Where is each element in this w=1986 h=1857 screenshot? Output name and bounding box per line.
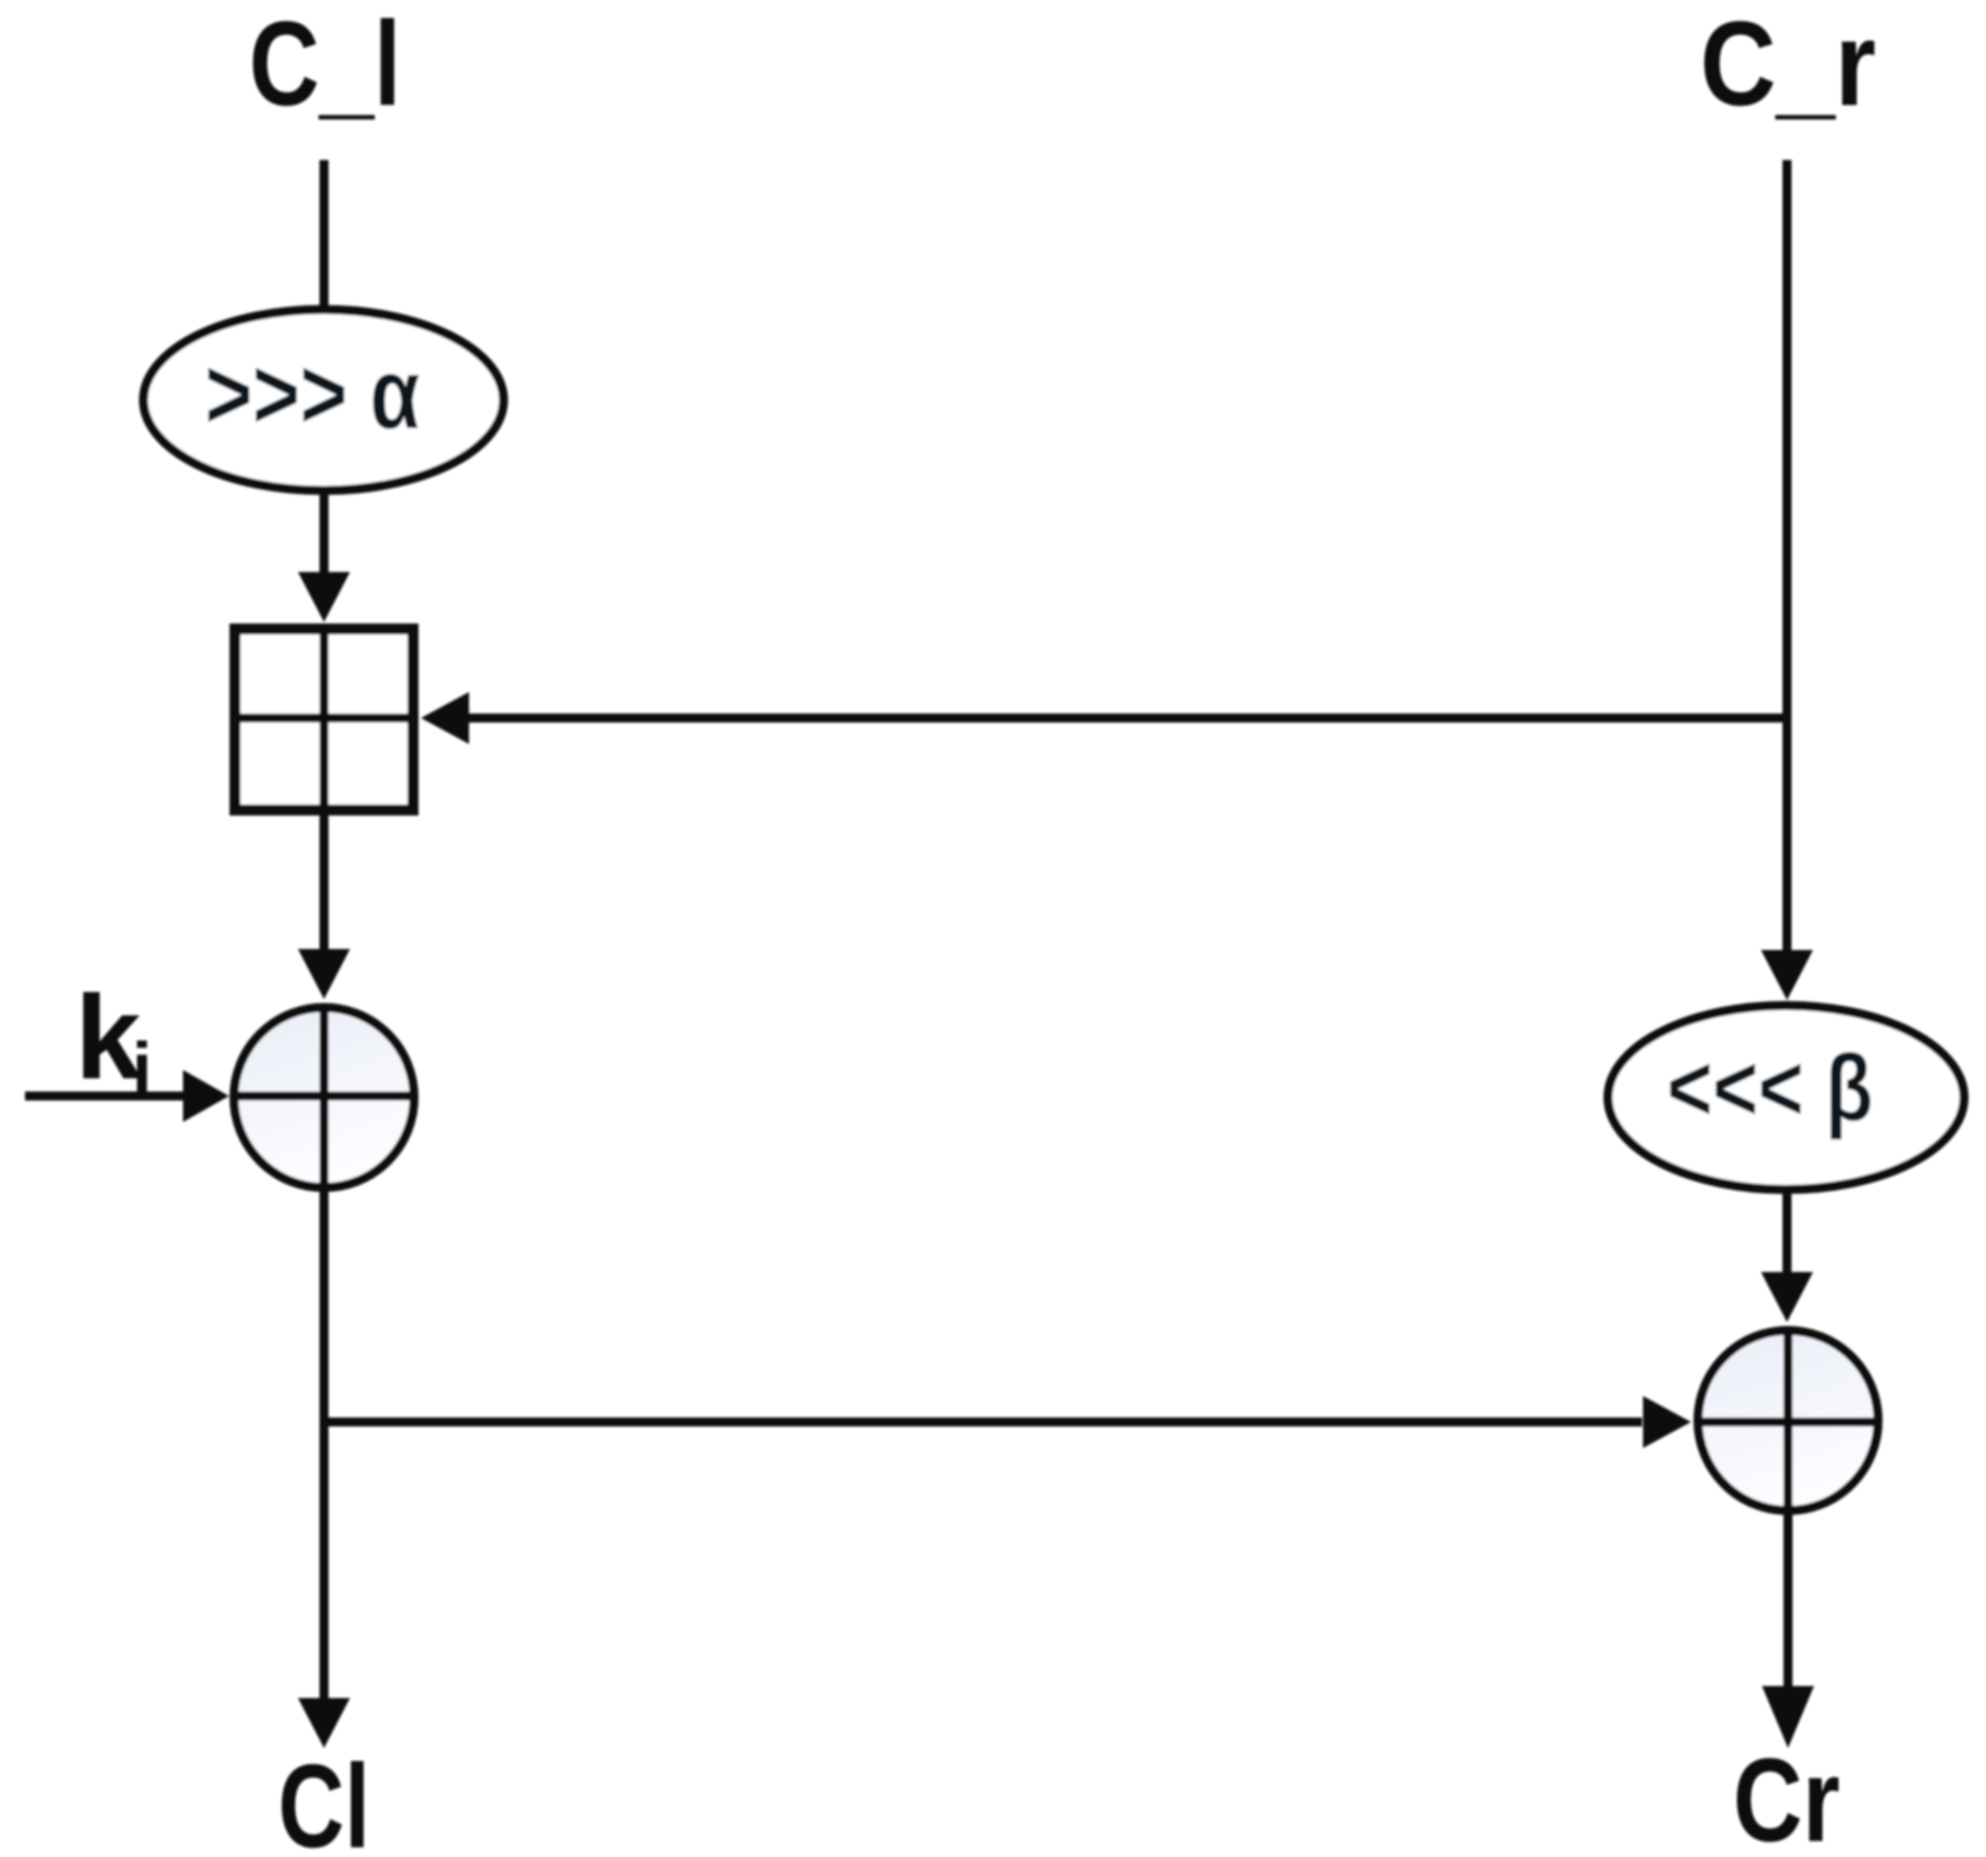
svg-text:C_r: C_r	[1700, 0, 1876, 131]
svg-text:Cl: Cl	[278, 1740, 370, 1857]
svg-text:i: i	[132, 1029, 152, 1109]
svg-text:>>> α: >>> α	[205, 338, 420, 450]
svg-text:<<< β: <<< β	[1667, 1035, 1873, 1140]
svg-text:Cr: Cr	[1733, 1734, 1840, 1857]
svg-text:C_l: C_l	[249, 0, 401, 131]
